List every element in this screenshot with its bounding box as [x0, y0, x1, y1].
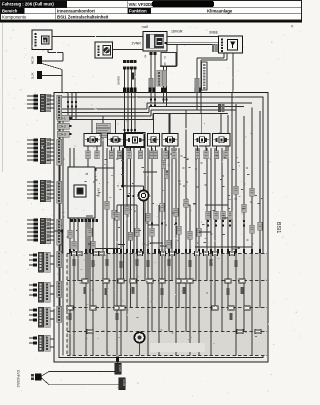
svg-text:MC10: MC10: [31, 56, 35, 64]
svg-text:Fahrzeug : 206 (Full mux): Fahrzeug : 206 (Full mux): [2, 2, 54, 7]
svg-text:null: null: [142, 24, 148, 29]
svg-text:DVP43SN2: DVP43SN2: [16, 370, 20, 387]
svg-text:Klimaanlage: Klimaanlage: [207, 9, 233, 14]
svg-text:H: H: [43, 38, 46, 43]
svg-text:CC05: CC05: [122, 379, 126, 386]
svg-text:Innenraumkomfort: Innenraumkomfort: [57, 9, 96, 14]
svg-text:6: 6: [145, 55, 147, 59]
svg-text:BSI1: BSI1: [275, 222, 281, 233]
svg-text:2L2K: 2L2K: [31, 72, 35, 79]
svg-text:2VNR: 2VNR: [132, 42, 142, 46]
svg-text:16VGR: 16VGR: [171, 30, 183, 34]
svg-text:Komponente: Komponente: [2, 14, 27, 19]
svg-text:36VBG: 36VBG: [117, 76, 121, 85]
svg-text:CA-2: CA-2: [59, 125, 66, 129]
svg-text:3VBE: 3VBE: [209, 31, 219, 35]
svg-text:Funktion: Funktion: [129, 9, 147, 14]
svg-text:CA-3: CA-3: [59, 133, 66, 137]
svg-text:Bereich: Bereich: [2, 9, 18, 14]
svg-text:2: 2: [164, 56, 166, 60]
svg-text:6: 6: [164, 62, 166, 66]
svg-text:BSI1 Zentralschalteinheit: BSI1 Zentralschalteinheit: [57, 14, 109, 19]
svg-text:CA05: CA05: [118, 365, 122, 372]
